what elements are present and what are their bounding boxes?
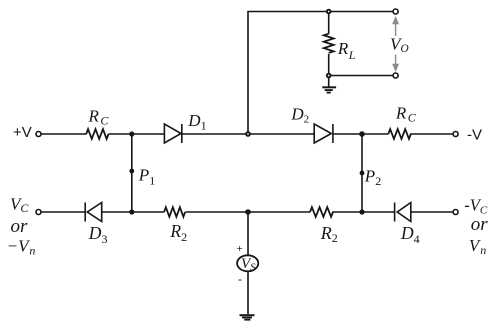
svg-text:+: +: [237, 243, 243, 255]
svg-text:or: or: [11, 216, 29, 237]
svg-text:or: or: [471, 214, 489, 235]
svg-text:+V: +V: [13, 124, 32, 141]
svg-text:-V: -V: [467, 127, 482, 144]
svg-text:-: -: [238, 272, 242, 286]
